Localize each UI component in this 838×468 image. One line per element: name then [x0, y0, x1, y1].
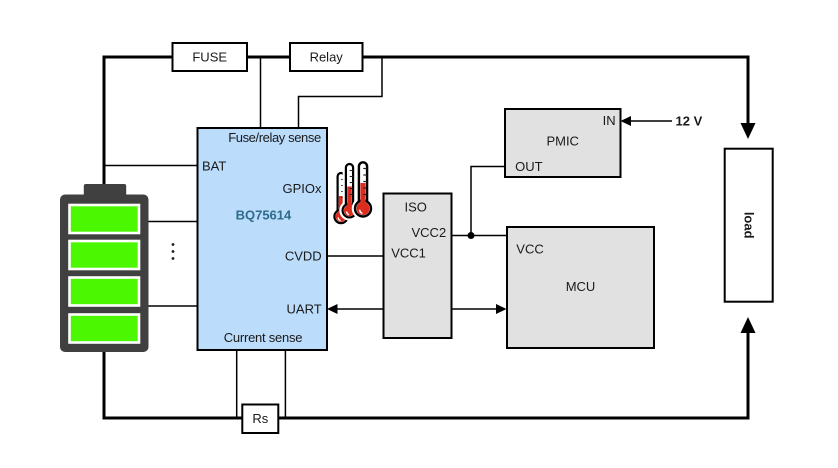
- svg-text:OUT: OUT: [515, 159, 543, 174]
- svg-text:VCC: VCC: [516, 242, 543, 257]
- svg-text:12 V: 12 V: [676, 114, 703, 129]
- svg-text:PMIC: PMIC: [546, 133, 579, 148]
- svg-text:Current sense: Current sense: [224, 330, 302, 345]
- svg-text:Relay: Relay: [310, 50, 344, 65]
- svg-text:BAT: BAT: [202, 159, 226, 174]
- svg-text:VCC1: VCC1: [391, 246, 426, 261]
- svg-text:GPIOx: GPIOx: [282, 181, 322, 196]
- svg-text:load: load: [741, 212, 756, 239]
- svg-text:ISO: ISO: [404, 200, 426, 215]
- svg-text:IN: IN: [603, 113, 616, 128]
- svg-text:FUSE: FUSE: [192, 50, 227, 65]
- svg-text:MCU: MCU: [566, 279, 596, 294]
- svg-text:CVDD: CVDD: [285, 249, 322, 264]
- svg-text:Fuse/relay sense: Fuse/relay sense: [228, 130, 321, 145]
- svg-text:Rs: Rs: [252, 411, 268, 426]
- svg-text:BQ75614: BQ75614: [236, 208, 292, 223]
- svg-text:VCC2: VCC2: [412, 225, 447, 240]
- svg-text:UART: UART: [287, 302, 322, 317]
